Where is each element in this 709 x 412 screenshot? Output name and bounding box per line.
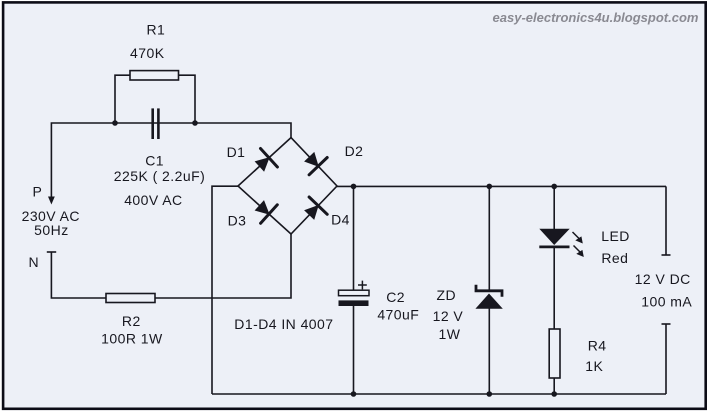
- wire N terminal tick: [47, 251, 56, 253]
- bridge rectifier diamond wires: [238, 138, 337, 234]
- wire output negative drop: [665, 324, 667, 394]
- LED: [539, 184, 584, 329]
- wire output negative terminal tick: [662, 323, 671, 325]
- svg-text:470uF: 470uF: [377, 307, 419, 323]
- diode D4: [304, 197, 327, 220]
- zener triangle: [475, 294, 502, 309]
- diode D2: [304, 152, 327, 175]
- zener cathode bar: [476, 285, 502, 297]
- node C2 top: [351, 184, 357, 190]
- node junction right of C1: [192, 120, 198, 126]
- svg-text:R2: R2: [122, 313, 141, 329]
- diode D3: [255, 200, 278, 223]
- svg-text:D1-D4 IN 4007: D1-D4 IN 4007: [234, 316, 333, 332]
- LED cathode bar: [539, 245, 569, 248]
- LED emission arrow 2: [574, 246, 584, 258]
- LED emission arrow 1: [573, 232, 583, 244]
- zener diode ZD: [475, 184, 502, 397]
- svg-text:1K: 1K: [585, 358, 603, 374]
- svg-text:D4: D4: [331, 212, 350, 228]
- node ZD top: [487, 184, 493, 190]
- wire N stub to R2: [51, 252, 106, 298]
- svg-text:400V AC: 400V AC: [124, 192, 182, 208]
- svg-text:100 mA: 100 mA: [641, 294, 692, 310]
- svg-text:C2: C2: [386, 289, 405, 305]
- svg-text:12 V DC: 12 V DC: [635, 271, 691, 287]
- svg-text:N: N: [29, 254, 40, 270]
- wire bridge left vertex to DC minus rail: [212, 186, 238, 394]
- LED triangle: [539, 229, 569, 245]
- svg-text:D2: D2: [345, 143, 364, 159]
- plate C2 negative: [339, 300, 369, 306]
- wire ZD top: [488, 186, 490, 290]
- svg-text:LED: LED: [601, 228, 630, 244]
- wire output positive drop: [665, 186, 667, 255]
- svg-text:470K: 470K: [130, 45, 165, 61]
- svg-text:easy-electronics4u.blogspot.co: easy-electronics4u.blogspot.com: [493, 10, 699, 25]
- plate C2 positive: [339, 290, 370, 296]
- resistor R1: [115, 71, 195, 123]
- wire R4 bottom: [553, 378, 555, 394]
- node junction left of C1: [112, 120, 118, 126]
- resistor R4: [549, 329, 560, 378]
- capacitor C1 plates: [153, 108, 159, 139]
- svg-text:R1: R1: [147, 22, 166, 38]
- resistor R2: [106, 294, 155, 303]
- wire P stub and top rail to bridge top: [51, 123, 291, 202]
- svg-text:P: P: [33, 184, 43, 200]
- wire R2 to bridge bottom vertex: [155, 234, 291, 298]
- svg-text:Red: Red: [601, 250, 628, 266]
- node R4 bottom: [551, 391, 557, 397]
- wire LED to R4: [553, 247, 555, 329]
- svg-text:100R 1W: 100R 1W: [101, 331, 163, 347]
- node C2 bottom: [351, 391, 357, 397]
- svg-text:C1: C1: [145, 153, 164, 169]
- wire bottom DC minus rail: [212, 393, 666, 395]
- node ZD bottom: [487, 391, 493, 397]
- svg-text:12 V: 12 V: [433, 308, 464, 324]
- wire LED top: [553, 186, 555, 230]
- capacitor C2: [339, 184, 370, 397]
- wire ZD bottom: [488, 308, 490, 394]
- svg-text:225K ( 2.2uF): 225K ( 2.2uF): [114, 168, 205, 184]
- svg-text:50Hz: 50Hz: [34, 222, 68, 238]
- wire C2 top: [353, 186, 355, 290]
- svg-text:D1: D1: [227, 144, 246, 160]
- wire C2 bottom: [353, 306, 355, 394]
- svg-text:ZD: ZD: [437, 287, 457, 303]
- svg-text:R4: R4: [588, 338, 607, 354]
- svg-text:1W: 1W: [439, 326, 461, 342]
- diode D1: [255, 149, 278, 172]
- wire output positive terminal tick: [662, 254, 671, 256]
- node LED top: [551, 184, 557, 190]
- svg-text:D3: D3: [228, 213, 247, 229]
- arrow P terminal: [48, 197, 55, 205]
- wire DC plus rail: [337, 185, 666, 187]
- plus sign C2: [358, 281, 367, 290]
